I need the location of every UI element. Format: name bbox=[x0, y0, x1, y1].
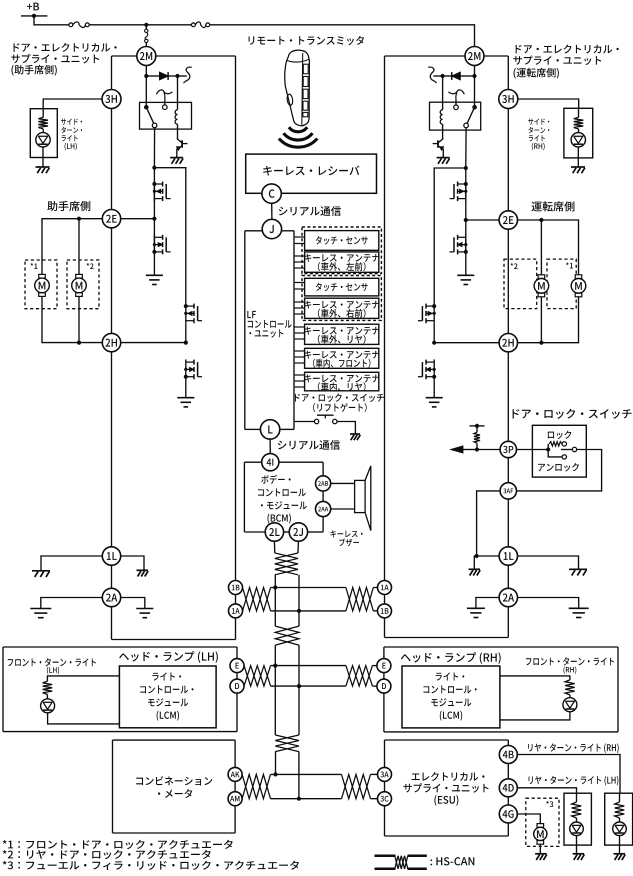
bus vertical to AK row bbox=[275, 752, 277, 775]
wire relay output left bbox=[152, 128, 156, 170]
wire branch to second column right bbox=[434, 168, 466, 304]
lamp rear LH bbox=[570, 822, 584, 836]
wire CAN-L row AM bbox=[271, 797, 342, 801]
resistor 3P pullup bbox=[474, 426, 480, 450]
wire 2M to diode right bbox=[461, 75, 475, 77]
connector 3AF bbox=[500, 483, 516, 499]
twisted pair section 3 bbox=[275, 735, 299, 752]
wire 3P row left branch bbox=[475, 447, 500, 451]
right unit box top edge bbox=[385, 55, 509, 57]
wire 3AF to 1L junction bbox=[475, 491, 501, 558]
wire resistor to lamp LH bbox=[42, 129, 44, 133]
wire 2H row left bbox=[42, 297, 102, 345]
connector 2A left bbox=[102, 588, 120, 606]
keyless antenna box interior rear bbox=[304, 372, 379, 391]
wire resistor to lamp front RH bbox=[569, 695, 571, 698]
wire 2H row left inner bbox=[121, 342, 186, 344]
wire relay output right bbox=[464, 128, 468, 170]
switch unlock contact branch bbox=[548, 450, 566, 460]
wire 2E row left bbox=[42, 217, 102, 275]
wire stubs touch sensor 1 bbox=[294, 237, 305, 244]
actuator box *1 right bbox=[547, 259, 576, 309]
text 運転席側 bbox=[531, 201, 574, 211]
wire 2H row right inner bbox=[434, 342, 499, 344]
keyless receiver box bbox=[246, 154, 377, 193]
connector 3A bbox=[378, 767, 392, 781]
text rear turn light RH bbox=[528, 743, 619, 753]
wire into resistor LH bbox=[42, 109, 44, 118]
relay fixed contact right bbox=[454, 105, 459, 110]
wire CAN-H row 1B bbox=[271, 585, 346, 589]
connector 1L right bbox=[499, 547, 517, 565]
left unit box right edge bbox=[235, 56, 237, 640]
connector 4I bbox=[262, 454, 279, 471]
fet Q10 right lower2 bbox=[418, 359, 436, 379]
twisted pair from 1B/1A left bbox=[243, 588, 271, 611]
HS-CAN legend symbol bbox=[375, 856, 427, 869]
side turn light box RH bbox=[564, 108, 593, 158]
actuator box *1 left bbox=[25, 260, 57, 309]
text headlamp LH bbox=[119, 651, 218, 663]
motor M5 fuel lid bbox=[534, 824, 547, 845]
text serial comm upper bbox=[279, 206, 341, 216]
text keyless receiver bbox=[263, 166, 359, 176]
lamp side turn LH bbox=[36, 133, 50, 147]
wire feed segment B bbox=[146, 24, 191, 26]
right unit title text bbox=[513, 45, 618, 79]
connector C bbox=[262, 184, 281, 203]
twisted pair to 1A/1B right bbox=[346, 588, 378, 611]
motor M4 right bbox=[571, 275, 586, 297]
fet Q2 left upper bbox=[152, 181, 170, 201]
twisted pair to 3A/3C bbox=[342, 774, 378, 798]
rear lamp box LH bbox=[564, 793, 591, 845]
twisted pair from AK/AM bbox=[242, 774, 270, 798]
resistor side light LH bbox=[38, 117, 48, 129]
wire 2AB to buzzer bbox=[331, 482, 355, 484]
fuel lid actuator box *3 bbox=[526, 798, 559, 846]
ground 1L outer right bbox=[569, 569, 587, 575]
connector 1L left bbox=[102, 547, 120, 565]
wire FET column2 mid left bbox=[184, 323, 188, 344]
text LCM RH bbox=[423, 672, 476, 720]
connector 2A right bbox=[499, 588, 517, 606]
diode left relay bbox=[160, 72, 169, 80]
wire CAN-L row 1A bbox=[271, 609, 346, 613]
ground FET column2 right bbox=[426, 398, 443, 407]
wire FET column2 to ground right bbox=[433, 379, 435, 397]
text remote transmitter bbox=[249, 36, 364, 45]
text rear turn light LH bbox=[529, 776, 619, 786]
text liftgate switch bbox=[295, 393, 384, 412]
node pullup top tick bbox=[470, 424, 485, 428]
wire CAN-H row AK bbox=[271, 772, 342, 776]
left unit box left edge bbox=[111, 56, 113, 640]
ground relay transistor right bbox=[437, 158, 450, 164]
connector 2L bbox=[265, 523, 283, 541]
wire 3P to switch pole bbox=[517, 447, 551, 451]
connector 3C bbox=[378, 792, 392, 806]
wire stubs touch sensor 2 bbox=[294, 283, 305, 290]
ground 1L inner right bbox=[469, 569, 481, 575]
connector 4G bbox=[499, 805, 517, 823]
relay armature right bbox=[467, 107, 475, 123]
wire FET column1 right bbox=[465, 168, 467, 275]
wire 2L down bbox=[273, 541, 275, 553]
wire into resistor RH bbox=[578, 108, 580, 117]
headlamp box RH bbox=[384, 647, 618, 732]
text BCM bbox=[258, 475, 307, 524]
wire stubs antenna interior front bbox=[294, 351, 305, 363]
node +B label bbox=[27, 3, 39, 11]
wire resistor to lamp rear LH bbox=[576, 818, 578, 822]
wire diode to coil node left bbox=[168, 74, 179, 78]
wire resistor to lamp rear RH bbox=[619, 818, 621, 822]
resistor rear RH bbox=[615, 793, 625, 818]
wire lamp to ground LH bbox=[42, 147, 44, 167]
text LCM LH bbox=[140, 672, 193, 720]
resistor rear LH bbox=[572, 793, 582, 818]
wire resistor to lamp front LH bbox=[46, 694, 48, 698]
resistor front turn RH bbox=[565, 680, 575, 695]
keyless buzzer speaker bbox=[355, 466, 371, 531]
wire stubs antenna rear bbox=[294, 327, 305, 339]
connector E left bbox=[230, 659, 244, 673]
switch lock contact branch bbox=[548, 442, 566, 450]
connector 2M right bbox=[465, 47, 484, 66]
text side turn light RH bbox=[528, 119, 549, 151]
bus verticals section 1B-1A bbox=[275, 575, 299, 626]
fet Q5 left lower2 bbox=[184, 359, 202, 379]
wire LCM to resistor LH bbox=[47, 676, 119, 681]
LCM box RH bbox=[402, 666, 500, 728]
in-line connector above 2M left bbox=[145, 25, 148, 47]
keyless antenna box interior front bbox=[304, 348, 379, 368]
wire 1L right-right bbox=[518, 556, 579, 569]
switch blade bbox=[561, 447, 577, 451]
wire liftgate switch to ground bbox=[337, 422, 355, 434]
wire lamp to LCM LH bbox=[48, 713, 120, 724]
ground liftgate switch bbox=[350, 434, 360, 440]
transistor Q6 right bbox=[433, 139, 444, 158]
relay coil right bbox=[440, 110, 442, 139]
ESU box bbox=[385, 740, 509, 836]
node 2E junction right bbox=[464, 218, 468, 222]
ground 2A inner right bbox=[467, 608, 485, 617]
wire switch to 3AF loop bbox=[517, 450, 602, 491]
wire 3H row left bbox=[43, 99, 102, 109]
wire 2A left-left bbox=[41, 598, 103, 609]
fusible link F2 bbox=[192, 22, 210, 28]
connector 2E left bbox=[102, 210, 120, 228]
text LF control unit bbox=[247, 311, 291, 338]
motor M1 left bbox=[35, 274, 50, 296]
wire 2A right-right bbox=[518, 598, 579, 609]
wire 2H row right outer bbox=[518, 293, 579, 345]
dashed group front-right sensors bbox=[302, 276, 381, 321]
left unit title text bbox=[11, 43, 116, 76]
keyless antenna box RF bbox=[304, 298, 379, 318]
wire 4B to rear lamp RH bbox=[517, 755, 620, 794]
liftgate switch contacts bbox=[314, 415, 337, 423]
ground FET column2 left bbox=[177, 398, 194, 407]
wire 2A right-left bbox=[476, 598, 499, 609]
diode right relay bbox=[452, 72, 461, 80]
lamp front turn RH bbox=[563, 698, 577, 712]
headlamp box LH bbox=[3, 647, 237, 732]
wire fuel lid motor to ground bbox=[539, 844, 541, 853]
remote transmitter key fob bbox=[285, 50, 310, 126]
twisted pair section 2 bbox=[275, 626, 299, 645]
text serial comm lower bbox=[278, 440, 340, 450]
text combination meter bbox=[136, 776, 212, 798]
text front turn light LH bbox=[8, 658, 96, 674]
connector 1A right bbox=[378, 581, 392, 595]
ground rear lamp LH bbox=[573, 854, 585, 860]
wire L to 4I bbox=[269, 439, 271, 454]
bus vertical to AM row bbox=[298, 752, 300, 799]
connector 2AB bbox=[316, 476, 331, 491]
resistor side light RH bbox=[574, 117, 584, 129]
ground side light LH bbox=[36, 167, 50, 173]
ground FET column1 left bbox=[146, 275, 163, 284]
wire CAN-L row D bbox=[271, 684, 346, 688]
connector AM bbox=[228, 792, 242, 806]
wire coil feed right bbox=[442, 76, 444, 110]
wire branch to second column left bbox=[154, 168, 185, 304]
side turn light box LH bbox=[30, 109, 57, 158]
wire FET column2 mid right bbox=[432, 323, 436, 344]
text unlock bbox=[538, 463, 579, 472]
text ESU bbox=[403, 772, 488, 806]
connector 2AA bbox=[316, 501, 331, 516]
keyless antenna box LF bbox=[304, 252, 379, 272]
ground 1L outer left bbox=[32, 571, 50, 577]
wire FET column1 left bbox=[153, 168, 155, 276]
wire lamp to ground RH bbox=[577, 147, 579, 167]
combination meter box bbox=[113, 740, 236, 833]
wire 2M to diode left bbox=[146, 75, 159, 77]
lamp side turn RH bbox=[571, 133, 585, 147]
bus verticals section E-D bbox=[275, 645, 299, 735]
twisted pair section 1 bbox=[275, 553, 298, 575]
actuator box *2 right bbox=[504, 259, 537, 309]
LF control unit box bbox=[245, 231, 294, 430]
connector 2H right bbox=[499, 334, 517, 352]
fet Q3 left lower bbox=[152, 235, 170, 255]
connector 1A left bbox=[229, 604, 243, 618]
text headlamp RH bbox=[401, 652, 501, 664]
ground 2A outer left bbox=[30, 609, 51, 618]
text keyless buzzer bbox=[330, 530, 362, 546]
right unit box bottom edge bbox=[385, 637, 509, 639]
wire 2AA to buzzer bbox=[331, 508, 355, 510]
wire rear lamp LH to ground bbox=[576, 836, 578, 854]
relay common contact left bbox=[144, 105, 149, 110]
wire CAN-H row E bbox=[271, 664, 346, 668]
transistor Q1 left bbox=[177, 139, 188, 158]
ground 2A inner left bbox=[136, 609, 153, 618]
text lock bbox=[548, 431, 571, 440]
text HS-CAN bbox=[430, 857, 474, 865]
lamp rear RH bbox=[613, 822, 627, 836]
node +B terminal bar bbox=[21, 14, 47, 18]
wire FET column2 to ground left bbox=[185, 379, 187, 397]
connector 3H left bbox=[102, 90, 121, 109]
wire 2J down bbox=[297, 541, 299, 553]
ground FET column1 right bbox=[457, 275, 474, 284]
wire LF to liftgate switch bbox=[294, 421, 314, 423]
relay common contact right bbox=[472, 105, 477, 110]
wire 2A left-right bbox=[121, 598, 145, 609]
right unit box left edge bbox=[384, 56, 386, 638]
door lock switch box bbox=[532, 425, 586, 477]
ground fuel lid motor bbox=[535, 854, 547, 860]
relay coil left bbox=[175, 110, 177, 139]
actuator box *2 left bbox=[67, 260, 99, 309]
wire 1L right-left bbox=[474, 556, 499, 569]
wire diode to coil node right bbox=[441, 74, 452, 78]
connector 3P bbox=[500, 441, 516, 457]
motor M3 right bbox=[534, 275, 549, 297]
connector 2M left bbox=[137, 47, 156, 66]
wire stubs antenna interior rear bbox=[294, 375, 305, 387]
wire 2E row right outer bbox=[518, 218, 579, 278]
text 助手席側 bbox=[47, 201, 90, 211]
resistor front turn LH bbox=[43, 681, 53, 694]
fet Q9 right upper2 bbox=[418, 303, 436, 323]
connector 3H right bbox=[499, 90, 518, 109]
footnote 2 bbox=[3, 850, 211, 859]
ground rear lamp RH bbox=[614, 854, 626, 860]
wire rear lamp RH to ground bbox=[619, 836, 621, 854]
wire 1L left-left bbox=[41, 556, 102, 571]
footnote 3 bbox=[3, 861, 299, 870]
connector 4D bbox=[499, 779, 517, 797]
relay armature left bbox=[146, 107, 153, 123]
BCM box bbox=[244, 462, 323, 532]
twisted pair to E/D right bbox=[346, 666, 377, 687]
ground relay transistor left bbox=[170, 158, 183, 164]
wire 2M into relay common left bbox=[145, 76, 147, 107]
wire C to J bbox=[271, 203, 273, 219]
left unit box bottom edge bbox=[112, 639, 236, 641]
fet Q7 right upper bbox=[450, 181, 468, 201]
wire 2M right down bbox=[472, 66, 476, 79]
wire stub squiggle top right bbox=[428, 67, 442, 83]
fusible link F1 bbox=[69, 22, 89, 28]
wire 2M left down bbox=[144, 66, 148, 79]
wire 3H row right bbox=[518, 99, 579, 108]
ground side light RH bbox=[571, 167, 585, 173]
connector 2E right bbox=[499, 211, 517, 229]
wire feed segment C bbox=[210, 25, 475, 47]
fet Q8 right lower bbox=[450, 235, 468, 255]
arrow to other circuit bbox=[451, 446, 477, 453]
touch sensor box 2 bbox=[305, 278, 379, 296]
touch sensor box 1 bbox=[305, 231, 379, 251]
ground 1L inner left bbox=[136, 570, 148, 576]
ground 2A outer right bbox=[569, 608, 589, 617]
text door lock switch title right bbox=[513, 409, 632, 419]
LCM box LH bbox=[119, 666, 216, 728]
connector 2J bbox=[289, 523, 307, 541]
connector 1B left bbox=[229, 581, 243, 595]
wire resistor to lamp RH bbox=[578, 129, 580, 133]
twisted pair from E/D left bbox=[244, 666, 271, 687]
text side turn light LH bbox=[61, 119, 82, 151]
node 2E junction left bbox=[152, 217, 156, 221]
radio waves bbox=[279, 127, 317, 147]
relay box right bbox=[430, 102, 481, 130]
wire lamp to LCM RH bbox=[500, 712, 570, 720]
wire stub squiggle top left bbox=[178, 67, 192, 83]
keyless antenna box rear bbox=[304, 324, 379, 344]
relay moving contact left bbox=[152, 123, 157, 128]
relay fixed contact left bbox=[163, 105, 168, 110]
footnote 1 bbox=[3, 840, 233, 849]
wire +B to main feed bbox=[34, 16, 69, 25]
wire 1L left-right bbox=[121, 556, 144, 570]
connector L bbox=[260, 420, 279, 439]
wire stubs antenna RF bbox=[294, 302, 305, 314]
wire 2E row left inner bbox=[121, 218, 155, 220]
wire coil feed left bbox=[177, 76, 179, 110]
wire 4G to fuel lid motor bbox=[517, 814, 540, 824]
connector 1B right bbox=[378, 604, 392, 618]
dashed group front-left sensors bbox=[302, 227, 381, 274]
wire stub squiggle mid right bbox=[448, 90, 464, 105]
right unit box right edge bbox=[507, 56, 509, 638]
wire LCM to resistor RH bbox=[500, 676, 570, 680]
connector D left bbox=[230, 679, 244, 693]
wire stubs antenna LF bbox=[294, 256, 305, 268]
connector AK bbox=[228, 767, 242, 781]
left unit box top edge bbox=[112, 55, 236, 57]
wire stub squiggle mid left bbox=[157, 90, 173, 105]
connector 2H left bbox=[102, 333, 120, 351]
connector J bbox=[262, 219, 281, 238]
lamp front turn LH bbox=[41, 699, 55, 713]
wire feed segment A bbox=[89, 23, 148, 27]
wire 2M into relay common right bbox=[474, 76, 476, 107]
connector 4B bbox=[499, 746, 517, 764]
text front turn light RH bbox=[526, 657, 614, 674]
relay box left bbox=[140, 102, 192, 129]
wire 2E row right inner bbox=[466, 219, 499, 221]
motor M2 left bbox=[72, 274, 87, 296]
connector D right bbox=[377, 679, 391, 693]
relay moving contact right bbox=[464, 123, 469, 128]
fet Q4 left upper2 bbox=[184, 303, 202, 323]
rear lamp box RH bbox=[605, 793, 633, 845]
connector E right bbox=[377, 659, 391, 673]
wire 4D to rear lamp LH bbox=[517, 788, 576, 793]
